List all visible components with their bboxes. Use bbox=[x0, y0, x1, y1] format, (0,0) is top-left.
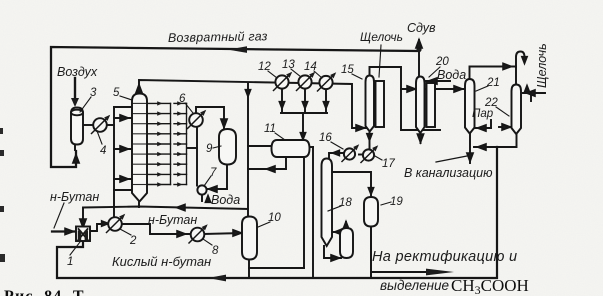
svg-text:3: 3 bbox=[90, 87, 97, 99]
svg-text:Кислый н-бутан: Кислый н-бутан bbox=[112, 254, 211, 269]
svg-text:8: 8 bbox=[212, 245, 219, 257]
svg-text:17: 17 bbox=[382, 158, 395, 170]
svg-text:5: 5 bbox=[113, 87, 120, 99]
svg-text:Пар: Пар bbox=[472, 108, 494, 120]
svg-text:13: 13 bbox=[282, 59, 295, 71]
svg-text:22: 22 bbox=[484, 97, 498, 109]
svg-text:15: 15 bbox=[341, 64, 354, 76]
svg-text:В канализацию: В канализацию bbox=[404, 166, 493, 180]
svg-text:CH3COOH: CH3COOH bbox=[451, 276, 529, 296]
svg-text:Щелочь: Щелочь bbox=[360, 30, 403, 44]
svg-text:7: 7 bbox=[210, 167, 217, 179]
svg-text:Сдув: Сдув bbox=[407, 21, 436, 35]
svg-text:Воздух: Воздух bbox=[57, 65, 98, 79]
svg-text:1: 1 bbox=[67, 256, 73, 268]
svg-text:Вода: Вода bbox=[211, 193, 240, 207]
svg-text:19: 19 bbox=[390, 196, 403, 208]
svg-text:18: 18 bbox=[339, 197, 352, 209]
svg-text:н-Бутан: н-Бутан bbox=[50, 190, 99, 204]
svg-text:21: 21 bbox=[486, 77, 500, 89]
svg-text:н-Бутан: н-Бутан bbox=[148, 213, 197, 227]
svg-text:12: 12 bbox=[258, 61, 271, 73]
svg-text:выделение: выделение bbox=[380, 278, 449, 293]
svg-text:20: 20 bbox=[435, 56, 449, 68]
svg-text:Рис. 84. Т: Рис. 84. Т bbox=[4, 288, 85, 296]
svg-text:10: 10 bbox=[268, 212, 281, 224]
svg-text:14: 14 bbox=[304, 61, 317, 73]
svg-text:11: 11 bbox=[264, 123, 276, 135]
svg-text:4: 4 bbox=[100, 145, 106, 157]
svg-text:Возвратный газ: Возвратный газ bbox=[168, 29, 268, 45]
svg-text:9: 9 bbox=[206, 143, 213, 155]
svg-text:6: 6 bbox=[179, 93, 186, 105]
svg-text:На ректификацию и: На ректификацию и bbox=[372, 249, 517, 265]
svg-text:Щелочь: Щелочь bbox=[535, 43, 549, 88]
svg-text:Вода: Вода bbox=[437, 68, 466, 82]
svg-text:16: 16 bbox=[319, 132, 332, 144]
svg-text:2: 2 bbox=[129, 235, 137, 247]
